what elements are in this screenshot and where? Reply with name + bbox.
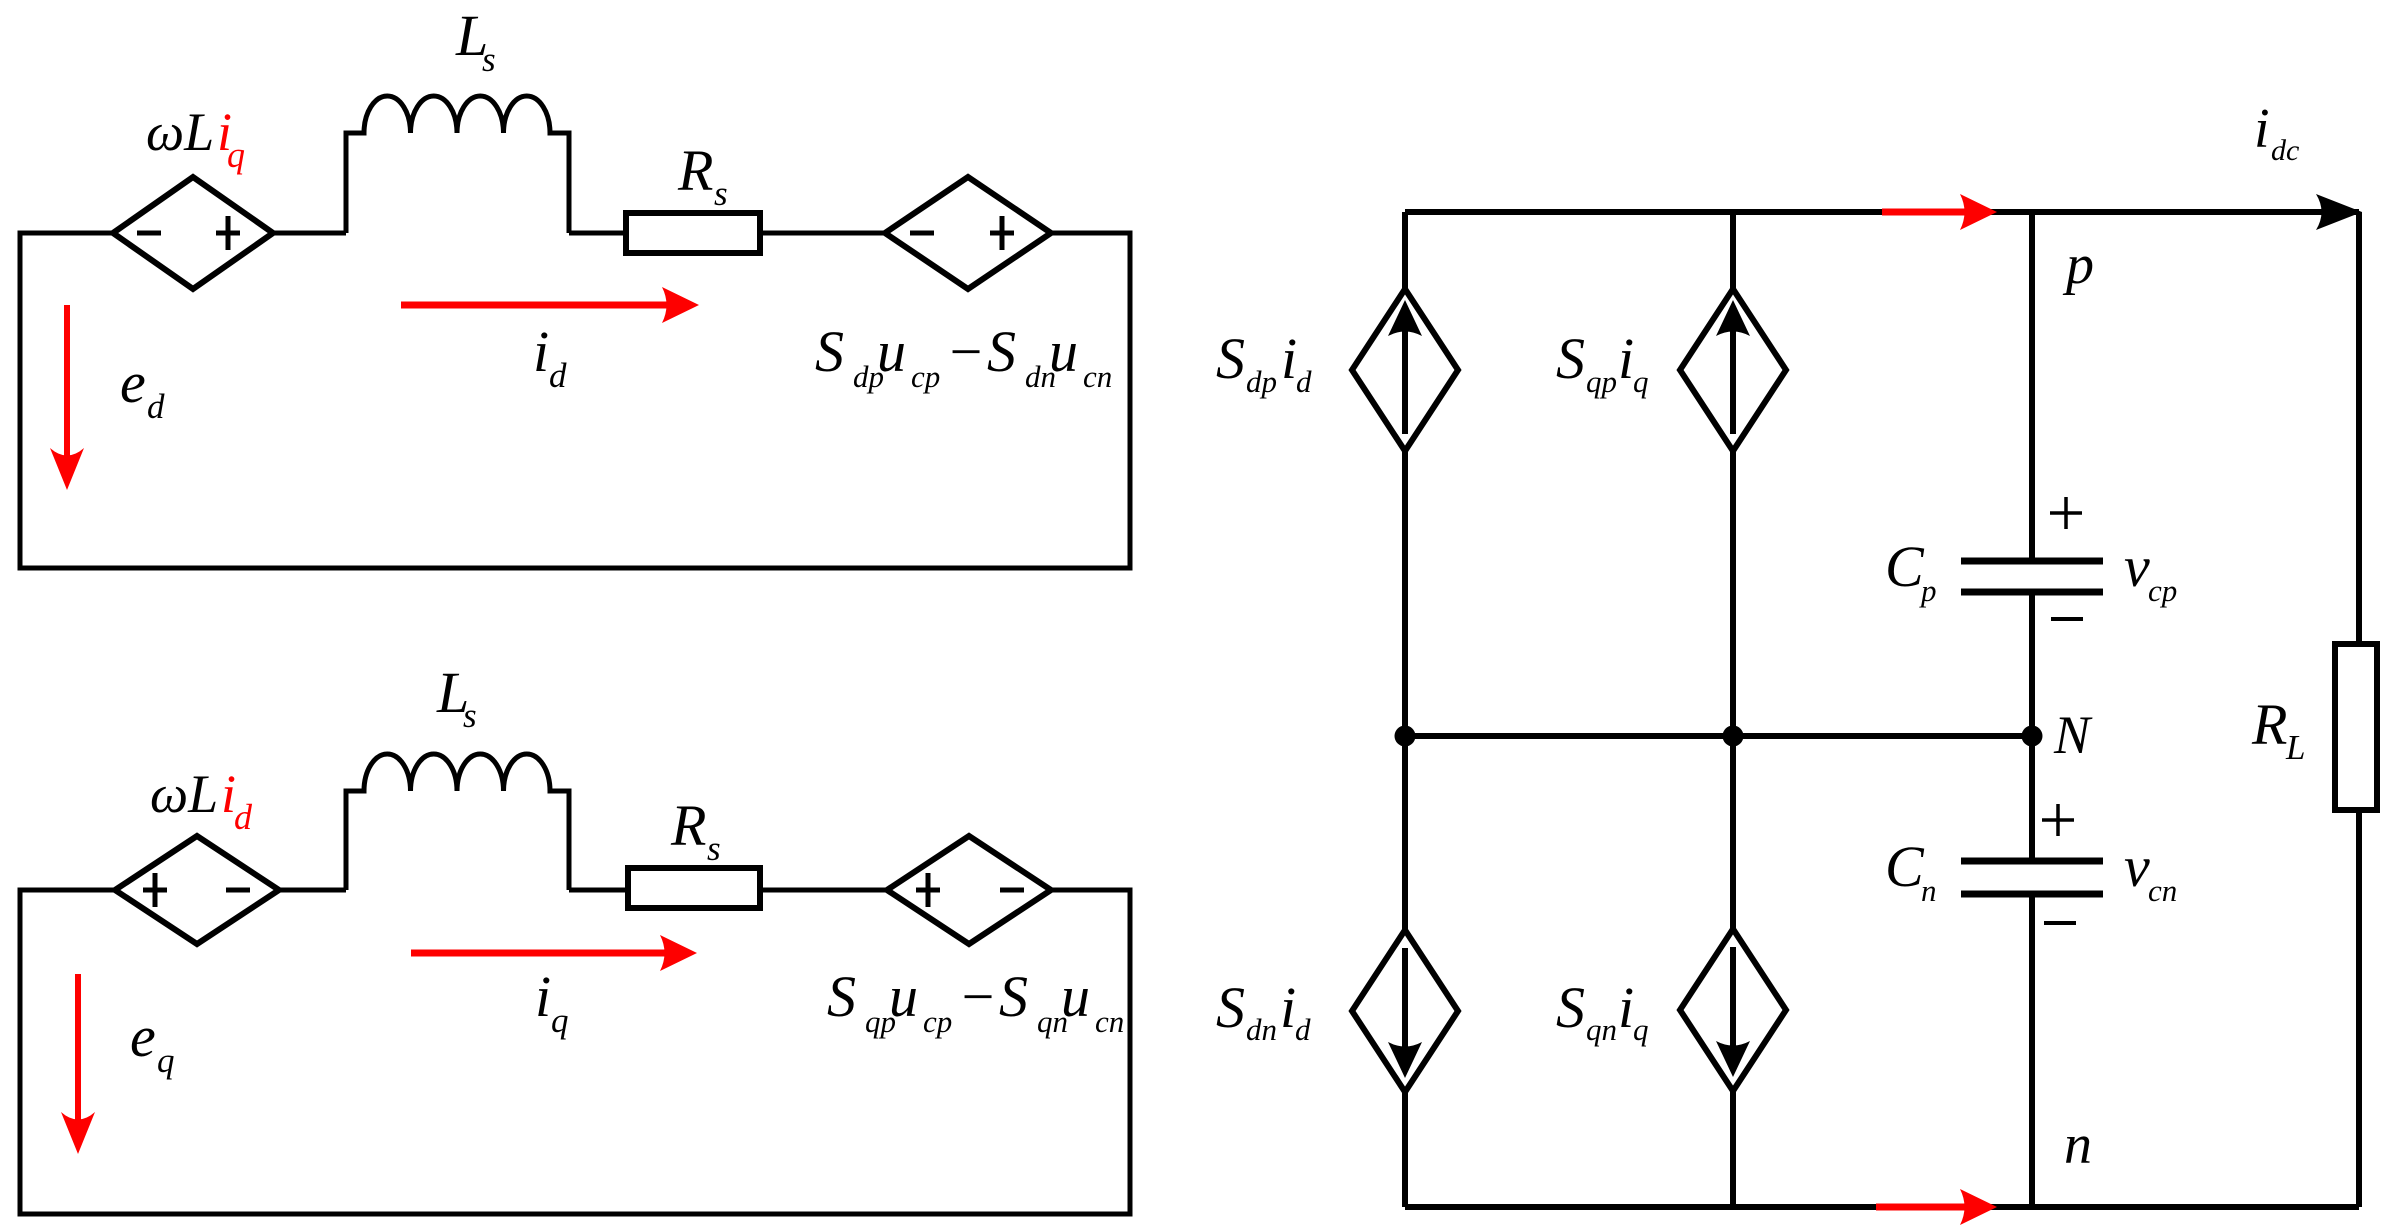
svg-text:S: S: [999, 964, 1028, 1029]
capacitor Cn plates: [1961, 861, 2103, 894]
svg-text:S: S: [1556, 975, 1585, 1040]
dependent source ωLiq (diamond V1, top-left loop): [113, 177, 273, 289]
svg-text:N: N: [2053, 705, 2093, 765]
svg-text:dn: dn: [1246, 1012, 1277, 1047]
svg-text:cp: cp: [923, 1004, 952, 1039]
wire: Cn to bottom rail: [2029, 897, 2035, 1207]
svg-text:C: C: [1885, 834, 1925, 899]
plus sign above Cp: [2050, 497, 2082, 529]
wire: resistor Rs to diamond V2: [760, 231, 886, 236]
red arrow id (current, right): [401, 287, 699, 323]
svg-text:R: R: [2251, 692, 2287, 757]
svg-text:u: u: [1061, 964, 1090, 1029]
svg-text:n: n: [1921, 873, 1937, 908]
label id: [533, 319, 567, 395]
label Sqp ucp - Sqn ucn: [827, 964, 1124, 1039]
label Sdp id: [1216, 326, 1312, 399]
wire: Sdn source to bottom rail: [1402, 1089, 1408, 1207]
label n (node): [2064, 1114, 2092, 1176]
wire: diamond V1 to inductor Ls: [273, 231, 346, 236]
svg-text:u: u: [1049, 319, 1078, 384]
wire: branch2 from N down to Sqn source: [1730, 736, 1736, 934]
svg-text:i: i: [1280, 975, 1296, 1040]
current source Sqp iq (diamond, arrow up): [1680, 289, 1786, 451]
svg-text:i: i: [1281, 326, 1297, 391]
svg-text:i: i: [1618, 326, 1634, 391]
capacitor Cp plates: [1961, 561, 2103, 592]
svg-text:dp: dp: [1246, 364, 1277, 399]
svg-text:u: u: [889, 964, 918, 1029]
label Sqn iq: [1556, 975, 1649, 1047]
junction dot at branch1/N: [1395, 726, 1416, 747]
wire: branch1 from N down to Sdn source: [1402, 736, 1408, 935]
dependent source Sdp*ucp - Sdn*ucn (diamond V2): [885, 177, 1051, 289]
wire: inductor to resistor Rs (bottom loop): [569, 888, 628, 893]
dependent source ωLid (diamond V3, bottom-left loop): [115, 836, 279, 944]
inductor Ls (top loop): [346, 96, 569, 233]
svg-text:cn: cn: [2148, 873, 2177, 908]
wire: branch1 top (rail to Sdp source): [1402, 212, 1408, 292]
red arrow iq (right): [411, 935, 697, 971]
wire: top-left loop frame (left, bottom, right sides): [20, 233, 1130, 568]
svg-text:q: q: [157, 1041, 175, 1080]
svg-text:s: s: [482, 40, 496, 79]
svg-text:d: d: [549, 356, 567, 395]
red arrow ed (source voltage, down): [50, 305, 84, 490]
wire: RL to bottom rail: [2356, 810, 2362, 1207]
svg-text:e: e: [120, 350, 146, 415]
svg-text:cp: cp: [911, 359, 940, 394]
label Ls (bottom loop): [436, 660, 477, 735]
wire: diamond V4 to right side (bottom loop): [1051, 888, 1130, 893]
svg-text:S: S: [815, 319, 844, 384]
current source Sqn iq (diamond, arrow down): [1680, 929, 1786, 1091]
label Sdn id: [1216, 975, 1311, 1047]
svg-text:q: q: [227, 135, 245, 175]
label ed: [120, 350, 165, 426]
dependent source Sqp*ucp - Sqn*ucn (diamond V4): [887, 836, 1051, 944]
svg-text:cn: cn: [1095, 1004, 1124, 1039]
svg-text:ωL: ωL: [146, 102, 214, 162]
label Sdp ucp - Sdn ucn: [815, 319, 1112, 394]
svg-text:p: p: [1919, 573, 1937, 608]
svg-text:R: R: [677, 138, 713, 203]
wire: diamond V2 to right side of loop: [1051, 231, 1130, 236]
label iq: [535, 964, 569, 1040]
wire: capacitor branch from rail p to Cp: [2029, 212, 2035, 558]
resistor RL: [2335, 644, 2377, 810]
wire: dc top rail p: [1405, 209, 2359, 215]
svg-text:n: n: [2064, 1114, 2092, 1176]
svg-text:−: −: [958, 964, 997, 1029]
svg-text:e: e: [130, 1004, 156, 1069]
svg-text:i: i: [535, 964, 551, 1029]
wire: node N horizontal rail: [1405, 733, 2032, 739]
label eq: [130, 1004, 175, 1080]
label Rs (bottom loop): [670, 793, 721, 868]
svg-text:S: S: [987, 319, 1016, 384]
wire: bottom-left loop frame: [20, 890, 1130, 1214]
minus sign below Cn: [2044, 921, 2076, 925]
current source Sdn id (diamond, arrow down): [1352, 930, 1458, 1092]
label ωLid: [150, 764, 253, 837]
svg-text:i: i: [1618, 975, 1634, 1040]
svg-text:q: q: [551, 1001, 569, 1040]
svg-text:qn: qn: [1586, 1012, 1617, 1047]
resistor Rs (bottom loop): [628, 868, 760, 908]
svg-text:s: s: [714, 174, 728, 213]
svg-text:S: S: [827, 964, 856, 1029]
red arrow idc on top rail: [1882, 194, 1997, 230]
wire: Sqp source to node N rail: [1730, 451, 1736, 736]
wire: Sdp source to node N rail: [1402, 451, 1408, 736]
svg-text:i: i: [2254, 98, 2270, 160]
label Rs (top loop): [677, 138, 728, 213]
svg-text:S: S: [1216, 975, 1245, 1040]
svg-text:d: d: [1296, 364, 1312, 399]
svg-text:qp: qp: [1586, 364, 1617, 399]
label p (node): [2062, 234, 2094, 296]
label Sqp iq: [1556, 326, 1649, 399]
plus sign above Cn: [2042, 804, 2074, 836]
label vcp: [2124, 534, 2177, 608]
svg-text:−: −: [946, 319, 985, 384]
svg-text:L: L: [2285, 728, 2305, 767]
svg-text:dc: dc: [2271, 134, 2299, 167]
wire: resistor to diamond V4 (bottom loop): [760, 888, 887, 893]
svg-text:cp: cp: [2148, 573, 2177, 608]
black arrowhead idc on top rail: [2316, 194, 2362, 230]
svg-text:v: v: [2124, 534, 2150, 599]
svg-text:S: S: [1216, 326, 1245, 391]
red arrow on bottom rail n: [1876, 1189, 1997, 1225]
label ωLiq: [146, 102, 245, 175]
wire: node N to Cn: [2029, 736, 2035, 858]
svg-text:cn: cn: [1083, 359, 1112, 394]
label Cn: [1885, 834, 1937, 908]
svg-text:C: C: [1885, 534, 1925, 599]
wire: diamond V3 to inductor Ls: [279, 888, 346, 893]
label N: [2053, 705, 2093, 765]
svg-text:q: q: [1633, 364, 1649, 399]
wire: inductor to resistor Rs: [569, 231, 626, 236]
svg-text:R: R: [670, 793, 706, 858]
svg-text:q: q: [1633, 1012, 1649, 1047]
wire: Cp to node N: [2029, 595, 2035, 736]
svg-text:d: d: [234, 797, 253, 837]
svg-text:d: d: [1295, 1012, 1311, 1047]
inductor Ls (bottom loop): [346, 754, 569, 890]
label idc: [2254, 98, 2299, 167]
svg-text:s: s: [707, 829, 721, 868]
svg-text:S: S: [1556, 326, 1585, 391]
svg-text:ωL: ωL: [150, 764, 218, 824]
label Cp: [1885, 534, 1937, 608]
label Ls (top loop): [455, 3, 496, 79]
junction dot at branch2/N: [1723, 726, 1744, 747]
svg-text:u: u: [877, 319, 906, 384]
svg-text:d: d: [147, 387, 165, 426]
wire: Sqn source to bottom rail: [1730, 1088, 1736, 1207]
current source Sdp id (diamond, arrow up): [1352, 289, 1458, 451]
svg-text:s: s: [463, 696, 477, 735]
svg-text:v: v: [2124, 834, 2150, 899]
svg-text:i: i: [533, 319, 549, 384]
red arrow eq (down): [61, 974, 95, 1154]
wire: branch2 top (rail to Sqp source): [1730, 212, 1736, 292]
label RL: [2251, 692, 2305, 767]
resistor Rs (top loop): [626, 213, 760, 253]
junction dot at capacitor branch/N: [2022, 726, 2043, 747]
wire: dc bottom rail n: [1405, 1204, 2359, 1210]
svg-text:p: p: [2062, 234, 2094, 296]
minus sign below Cp: [2051, 617, 2083, 621]
wire: right branch from rail p down to RL: [2356, 212, 2362, 644]
label vcn: [2124, 834, 2177, 908]
